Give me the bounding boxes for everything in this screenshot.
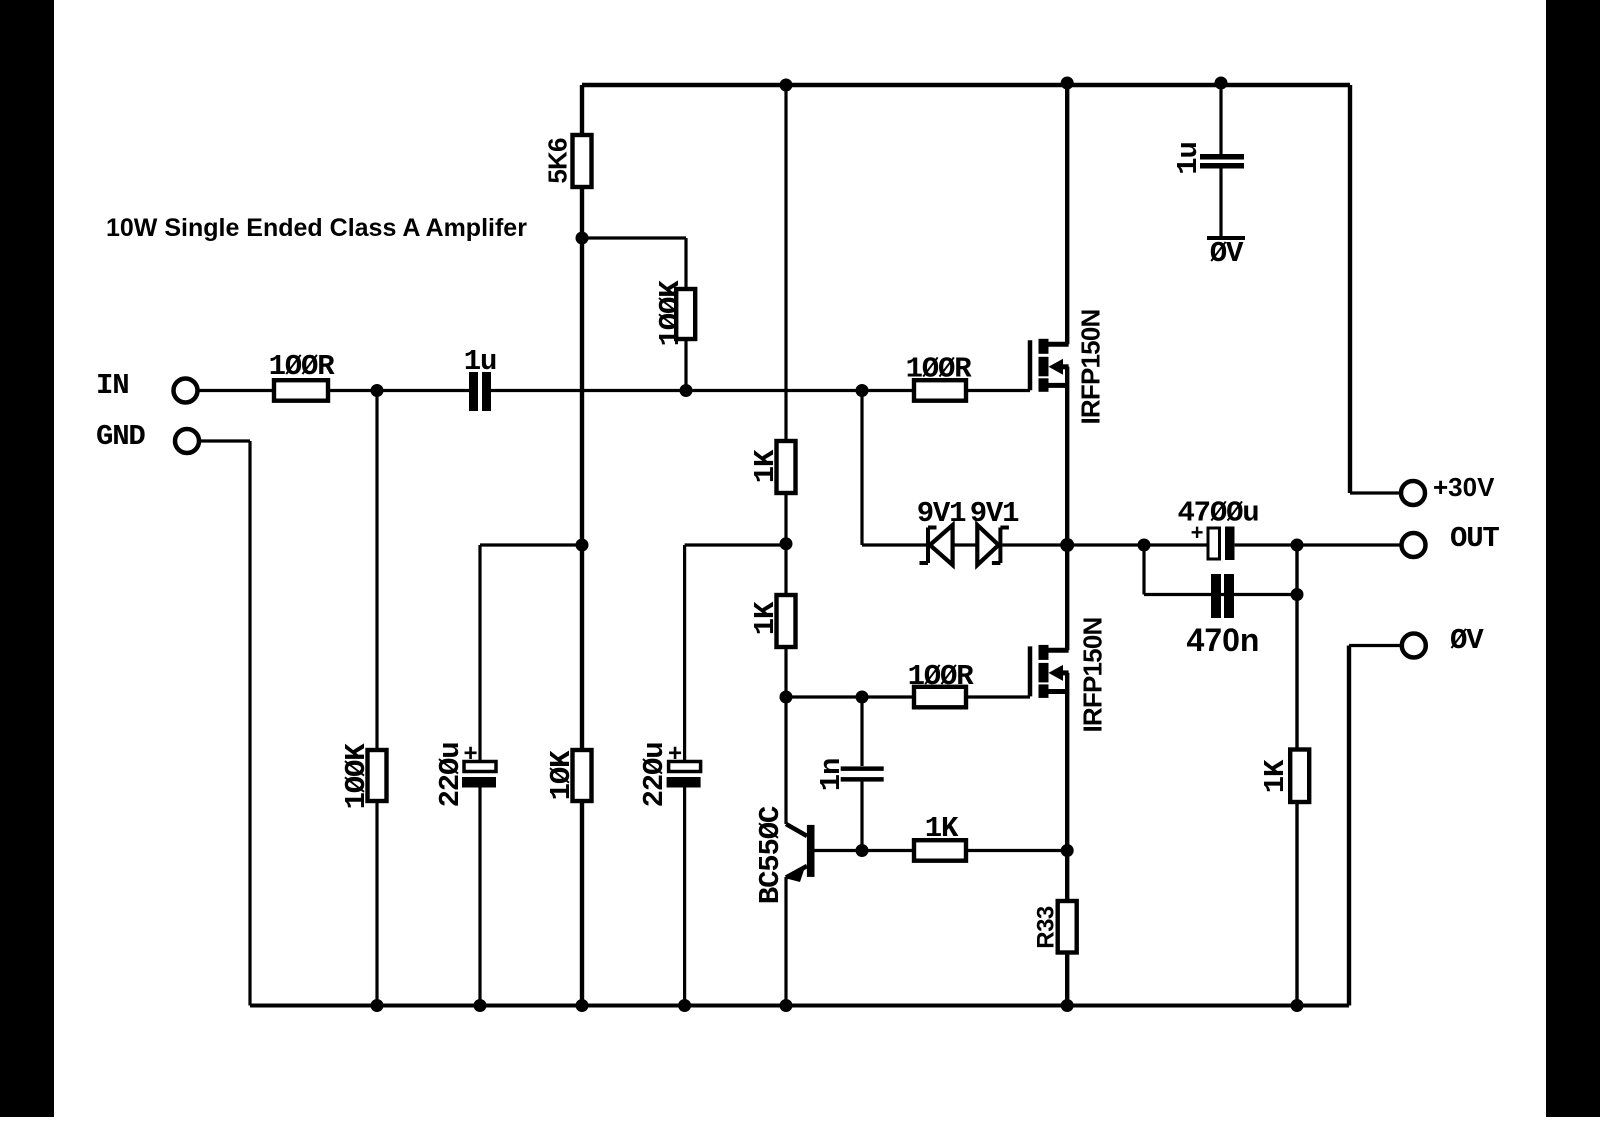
svg-text:1K: 1K	[1259, 759, 1292, 793]
svg-text:IN: IN	[96, 369, 128, 402]
svg-text:R33: R33	[1032, 906, 1059, 949]
svg-text:1ØØK: 1ØØK	[654, 280, 687, 347]
svg-text:9V1: 9V1	[917, 497, 966, 530]
svg-text:+30V: +30V	[1433, 472, 1495, 502]
svg-text:GND: GND	[96, 420, 145, 453]
svg-text:9V1: 9V1	[970, 497, 1019, 530]
svg-text:470n: 470n	[1187, 622, 1260, 658]
svg-text:22Øu: 22Øu	[638, 743, 671, 808]
svg-text:OUT: OUT	[1450, 522, 1499, 555]
svg-text:1ØØR: 1ØØR	[269, 350, 336, 383]
svg-text:1ØØK: 1ØØK	[340, 743, 373, 810]
svg-text:1K: 1K	[925, 812, 959, 845]
svg-text:ØV: ØV	[1210, 237, 1244, 270]
svg-text:1K: 1K	[749, 601, 782, 635]
svg-text:5K6: 5K6	[542, 138, 572, 184]
svg-text:ØV: ØV	[1450, 624, 1484, 657]
svg-text:22Øu: 22Øu	[434, 743, 467, 808]
svg-text:BC55ØC: BC55ØC	[754, 806, 787, 904]
svg-text:1u: 1u	[1172, 142, 1205, 174]
svg-text:+: +	[1190, 522, 1203, 547]
svg-text:1n: 1n	[815, 759, 848, 791]
svg-text:1ØØR: 1ØØR	[908, 660, 975, 693]
svg-text:10W Single Ended Class A Ampli: 10W Single Ended Class A Amplifer	[106, 214, 527, 242]
svg-text:IRFP150N: IRFP150N	[1075, 309, 1105, 424]
svg-text:1ØØR: 1ØØR	[906, 353, 973, 386]
svg-text:IRFP150N: IRFP150N	[1077, 617, 1107, 732]
svg-text:1u: 1u	[464, 345, 496, 378]
svg-text:1ØK: 1ØK	[545, 750, 578, 800]
svg-text:1K: 1K	[749, 449, 782, 483]
